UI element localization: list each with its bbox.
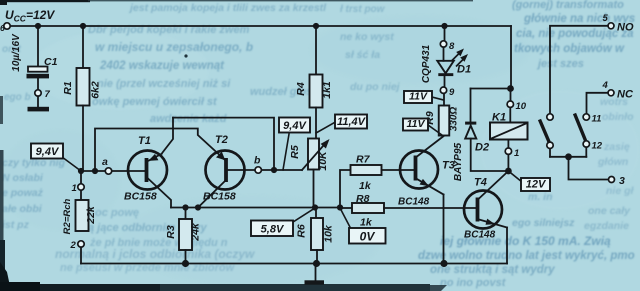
svg-text:T2: T2 [215,134,228,146]
switch arm (left) [540,120,550,143]
wire rail to D1 [444,26,446,41]
transistor T3 BC148 [398,136,455,208]
svg-text:R2=Rch: R2=Rch [62,198,73,234]
svg-text:one struktą i sąt wydry: one struktą i sąt wydry [430,264,555,276]
junction: rail / R1 [80,23,86,29]
junction: R3 / ground rail [182,260,189,267]
resistor R4 1k1 [295,26,333,139]
power rail +12V wire (top) [7,25,511,27]
voltage label 11V (above R9) [404,91,444,104]
svg-text:C1: C1 [44,56,58,68]
terminal 4 NC [602,80,634,101]
svg-text:b: b [254,155,261,167]
wire T1 emitter to node b [173,118,274,170]
potentiometer R5 10K [289,139,330,171]
voltage label 11,4V at R4/R5 junction [316,115,367,134]
junction: rail / R4 [313,23,319,29]
svg-text:T4: T4 [474,177,487,189]
svg-text:R1: R1 [62,81,74,95]
relay K1 coil [490,107,528,139]
junction: R5/R6 node with output wire [312,204,318,210]
node b wire to T2 base and R5 wiper [228,169,302,171]
terminal 10 [507,101,527,112]
wire node a row (R1/R2 junction to T1 base) [81,170,145,172]
transistor T1 BC158 [124,118,173,208]
svg-text:oc powę: oc powę [95,207,139,219]
svg-text:ałe obbi: ałe obbi [2,203,43,215]
svg-text:6k2: 6k2 [90,81,102,99]
resistor R1 6k2 [62,26,102,171]
svg-text:(gornej) transformato: (gornej) transformato [512,0,624,11]
svg-text:1: 1 [72,183,77,194]
ground rail (bottom wire) [81,263,507,265]
svg-text:normalną i jclos odbiornika (o: normalną i jclos odbiornika (oczyw [55,247,255,261]
svg-text:1k: 1k [360,217,373,229]
voltage label 0V at R7/R8 node [340,208,386,244]
svg-text:24k: 24k [190,222,202,242]
contact 11 [583,114,601,125]
diode D2 BAYP95 [453,89,508,182]
svg-text:a: a [102,156,108,168]
svg-text:11V: 11V [409,91,428,103]
svg-text:zasię: zasię [603,141,630,153]
transistor T2 BC158 [198,134,245,208]
capacitor C1 10u/16V [11,33,58,90]
terminal 9 [440,87,455,98]
svg-text:2: 2 [70,240,77,251]
svg-text:obinło: obinło [602,111,634,123]
svg-text:8: 8 [449,41,455,52]
voltage label 9,4V at node b [279,118,310,171]
contact pivot (left) [547,142,553,157]
svg-text:5: 5 [603,13,609,24]
wire relay to terminal 1 [507,140,509,149]
svg-text:10: 10 [516,101,527,112]
svg-text:główn: główn [597,156,628,168]
svg-text:ego b: ego b [4,92,31,103]
wire C1 terminal to ground [37,96,39,107]
svg-text:BC148: BC148 [464,230,496,241]
junction: node a / R1 R2 [78,168,84,174]
svg-text:1k1: 1k1 [321,81,333,99]
junction: node b / T1 emitter wire [271,167,277,173]
junction: rail / C1 [35,23,41,29]
voltage label 11V (T3 collector) [403,118,442,135]
svg-text:R3: R3 [165,225,177,239]
terminal 1 (relay) [505,148,519,159]
svg-text:NC: NC [617,89,634,101]
svg-text:ist pz: ist pz [2,219,30,231]
svg-text:D1: D1 [457,64,471,76]
svg-text:9,4V: 9,4V [36,146,60,158]
svg-text:m. in: m. in [528,191,553,203]
svg-text:0V: 0V [360,230,376,244]
node a [102,156,112,174]
wire to terminal 10 [510,89,512,102]
resistor R7 1k [340,154,414,208]
svg-text:12V: 12V [526,179,547,191]
svg-text:K1: K1 [492,112,506,124]
svg-text:BC148: BC148 [398,197,430,208]
resistor R6 10k [296,218,335,264]
svg-text:330Ω: 330Ω [449,107,460,132]
svg-text:T1: T1 [138,135,151,147]
svg-text:4: 4 [602,80,609,91]
terminal 8 [440,41,455,52]
svg-text:9: 9 [449,87,455,98]
svg-text:10K: 10K [317,150,329,171]
svg-text:9,4V: 9,4V [283,120,307,132]
junction: relay top / D2 cathode [507,85,514,92]
net label Ucc=12V [5,8,55,24]
svg-text:awdzenie każd: awdzenie każd [150,113,227,125]
contact pivot 12 [583,141,603,157]
transistor T4 BC148 [464,171,508,241]
svg-text:NO: NO [617,22,634,34]
svg-text:BC158: BC158 [124,191,157,203]
junction: node a / feedback to T2 emitter [92,168,98,174]
svg-text:jest szes: jest szes [536,58,584,70]
junction: contacts common [565,153,572,160]
terminal 2 [70,240,85,264]
junction: R6 / ground rail [313,260,320,267]
svg-text:R5: R5 [289,145,301,159]
svg-text:one cały: one cały [588,205,631,217]
svg-text:UCC=12V: UCC=12V [5,8,55,24]
svg-text:6: 6 [0,23,5,33]
svg-text:3: 3 [619,175,625,187]
svg-text:1: 1 [514,148,519,159]
wire T4 emitter to ground rail [506,228,508,264]
terminal 5 NO [603,13,634,34]
svg-text:5,8V: 5,8V [261,224,285,236]
svg-text:11,4V: 11,4V [337,116,367,128]
svg-text:BC158: BC158 [203,191,236,203]
wire NO to left contact [550,26,608,114]
svg-text:R8: R8 [356,193,370,205]
junction: output wire / R7 R8 (0V node) [337,204,343,210]
voltage label 5,8V at R5/R6 node [251,208,315,236]
wire node a to T2 emitter (feedback) [95,129,225,172]
svg-text:w miejscu u zepsałonego, b: w miejscu u zepsałonego, b [95,40,253,54]
junction: T4 collector / relay / D2 anode / 12V [505,168,512,175]
junction: T3 emitter / ground rail [440,260,447,267]
wire rail to C1 [37,26,39,67]
svg-text:10µ/16V: 10µ/16V [11,33,22,72]
wire D2 cathode link [471,88,511,90]
junction: rail / D1 [441,23,447,29]
svg-text:ówkę pewnej ówiercił st: ówkę pewnej ówiercił st [92,96,218,108]
svg-text:dzwe wolno trudno lat jest wyk: dzwe wolno trudno lat jest wykryć, pmo [418,250,635,262]
resistor R2=Rch 22k [62,198,97,234]
svg-text:11V: 11V [407,118,426,130]
svg-text:D2: D2 [475,142,489,154]
ground (below C1) [28,107,50,112]
junction: output wire / T2 collector [195,204,201,210]
wire NC to contact 11 [587,93,608,114]
svg-text:sł ść ła: sł ść ła [345,49,380,61]
switch arm (right) [575,114,586,141]
LED D1 CQP431 [421,44,471,87]
svg-text:no ino povst: no ino povst [440,277,507,289]
resistor R9 330ohm [424,94,460,136]
svg-text:e poważ: e poważ [2,187,44,199]
svg-text:1k: 1k [359,180,372,192]
svg-text:R7: R7 [356,154,371,166]
svg-text:11: 11 [592,114,602,125]
svg-text:jest pamoja kopeja i tlili zwe: jest pamoja kopeja i tlili zwes za krzes… [128,2,327,14]
svg-text:ł trst pow: ł trst pow [340,4,386,15]
svg-text:ego silniejsz: ego silniejsz [512,217,575,229]
svg-text:10k: 10k [323,224,335,243]
svg-text:BAYP95: BAYP95 [453,142,464,181]
voltage label 9,4V at node a [31,144,81,172]
svg-text:tkowych objawów w: tkowych objawów w [514,43,625,55]
svg-text:N osłabi: N osłabi [2,172,44,184]
svg-text:12: 12 [592,141,603,152]
svg-text:egzdanie: egzdanie [584,220,629,232]
svg-text:22k: 22k [85,205,97,225]
resistor R3 24k [165,208,202,264]
wire R5 bottom to R6 top [314,170,317,219]
junction: output wire / R3 [182,204,188,210]
svg-text:nie (przel wcześniej niż si: nie (przel wcześniej niż si [97,78,231,90]
svg-text:ne ko wyst: ne ko wyst [340,31,394,43]
wire common of contacts [550,156,586,158]
svg-text:CQP431: CQP431 [421,44,432,83]
ground (main) [305,264,325,285]
wire common to terminal 3 [569,157,609,180]
svg-text:R4: R4 [295,82,307,96]
contact (left, NO side) [547,114,553,120]
output wire (T1/T2 collectors, R3, to R7/R8) [171,207,340,209]
terminal 7 [35,89,51,100]
voltage label 12V at T4 collector [508,171,550,191]
terminal 3 [609,175,626,187]
resistor R8 1k [340,193,476,229]
svg-text:R6: R6 [296,224,308,238]
svg-text:du po niej: du po niej [350,81,401,93]
terminal 6 [0,23,10,33]
node b [254,155,261,174]
svg-text:2402 wskazuje wewnąt: 2402 wskazuje wewnąt [99,60,225,72]
terminal 1 [72,174,85,200]
wire terminal 1 to T4 collector node [507,154,509,171]
wire rail corner down to relay K1 [510,26,512,89]
wire T3 emitter to ground rail [443,195,445,264]
svg-text:7: 7 [45,89,51,100]
